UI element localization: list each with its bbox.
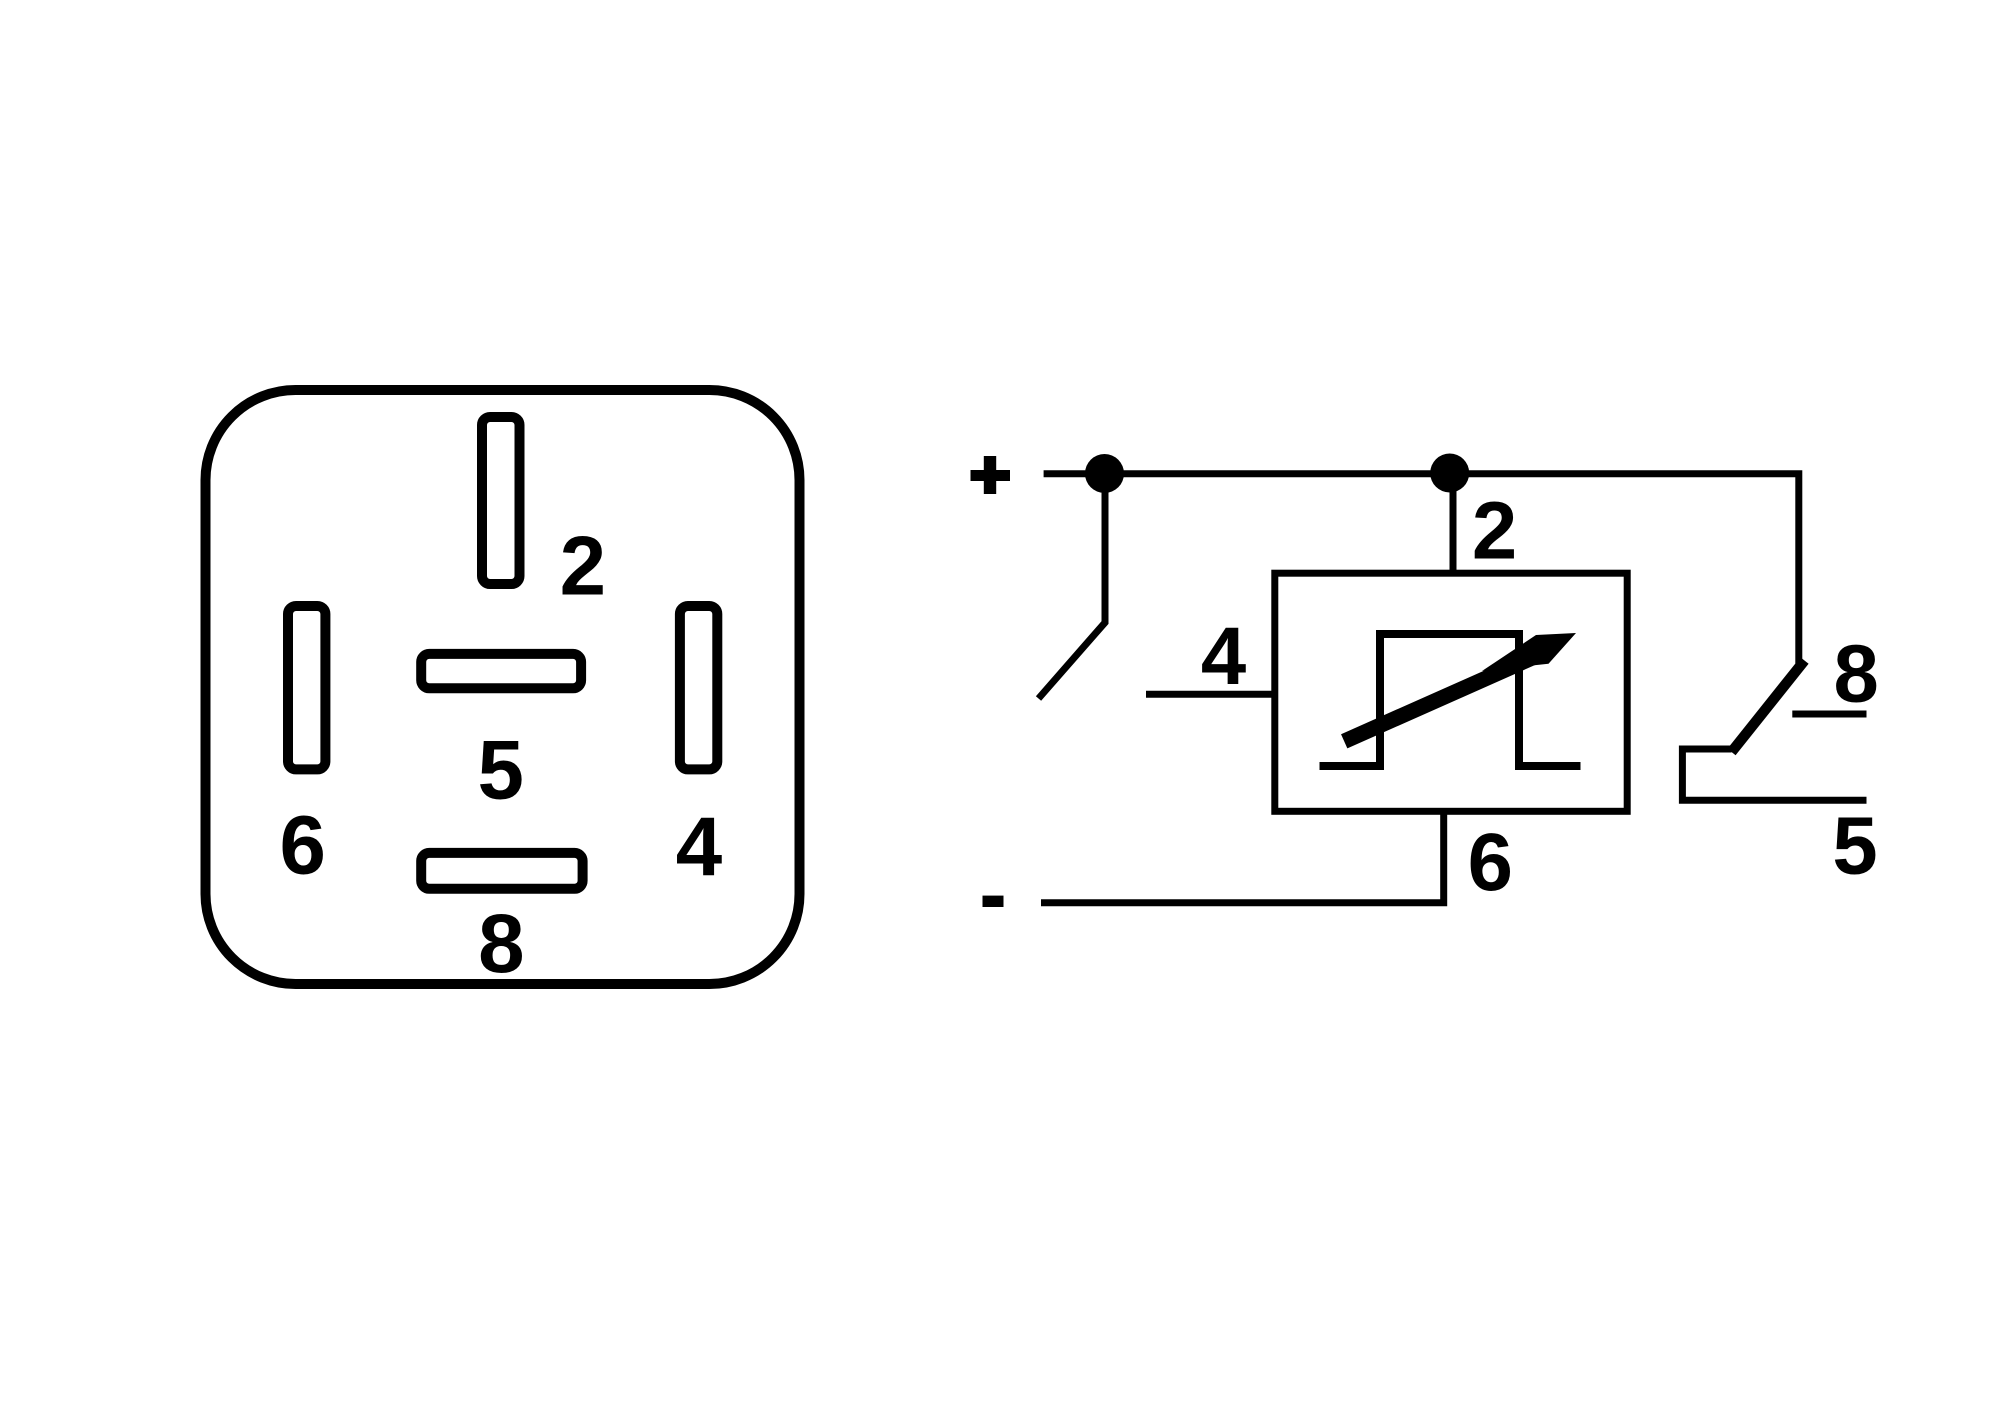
svg-text:5: 5 [1832,800,1877,891]
svg-text:4: 4 [676,799,722,893]
svg-text:8: 8 [1834,628,1879,719]
svg-text:6: 6 [1468,817,1513,908]
svg-text:5: 5 [477,723,523,817]
svg-text:2: 2 [1472,486,1517,577]
svg-text:8: 8 [478,896,524,990]
svg-text:2: 2 [560,519,606,613]
svg-text:4: 4 [1201,611,1246,702]
svg-text:6: 6 [279,797,325,891]
